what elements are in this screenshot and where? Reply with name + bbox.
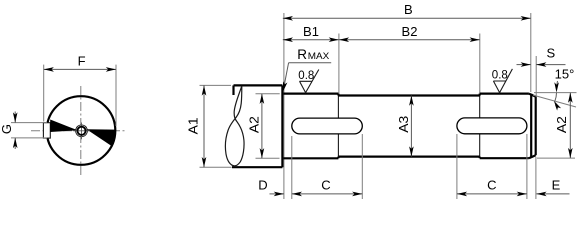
extension lines for dimension F [44,65,116,126]
svg-text:S: S [546,46,555,61]
dimension line G lower [14,138,16,149]
svg-text:0.8: 0.8 [492,70,508,82]
extension line bottom for A2 right [537,157,575,159]
arrow A1 bottom [202,157,207,167]
dimension line A3 [410,96,412,157]
centerline horizontal (end view) [31,130,125,132]
arrow A2-right bottom [568,148,573,158]
step face edge at B2 right boundary [479,96,481,157]
arrow S right [536,62,546,67]
arrow B1 right [329,37,339,42]
arrow G bottom [13,138,18,148]
svg-text:0.8: 0.8 [298,70,314,82]
extension line right keyway end [526,134,528,199]
dimension line B1 [283,39,339,41]
dimension line F [44,68,116,70]
dimension line E [536,193,569,195]
extension line left keyway end [361,134,363,199]
extension lines for dimension A2 left [256,94,280,159]
svg-text:A2: A2 [246,116,261,133]
dimension line A2 left [261,94,263,159]
step face edge at B1/B2 boundary [337,96,339,157]
extension line at end face (for S) [535,56,537,96]
leader shelf line for R MAX [289,62,332,64]
dimension line D [270,193,284,195]
extension line at chamfer start (for B, S) [530,13,532,92]
arrow B1 left [283,37,293,42]
extension line right keyway start [456,134,458,199]
arrow F left [44,67,54,72]
shaft outline circle [47,96,116,165]
dimension line A1 [203,85,205,167]
svg-text:D: D [258,178,267,193]
angular dimension lower leader [556,105,557,109]
angular dimension arc 15deg [555,93,557,101]
section wedge right (black) [87,129,116,146]
svg-text:C: C [321,178,330,193]
leader line R MAX [284,63,289,89]
centre hole crosshair [73,123,90,140]
centerline vertical (end view) [80,86,82,176]
svg-text:A1: A1 [186,117,201,134]
extension line between B1 and B2 [338,34,340,94]
dimension line S right part [536,64,565,66]
dimension line B2 [339,39,480,41]
keyway slot left (side view) [292,118,363,134]
extension line shaft end face bottom [535,157,537,199]
arrow C-left left [292,192,302,197]
extension lines for dimension G [11,123,47,138]
chamfer angle reference line horizontal [534,92,577,94]
arrow E [536,192,546,197]
arrow A1 top [202,85,207,95]
svg-text:MAX: MAX [308,51,330,62]
arrow S left [521,62,531,67]
extension line left keyway start [291,136,293,199]
dimension line C right [457,193,527,195]
arrow 15deg upper [554,82,559,92]
svg-text:F: F [78,53,86,68]
dimension line A2 right [569,93,571,159]
chamfer angle extension line diagonal [533,95,576,107]
keyway slot (end view) [43,123,50,138]
svg-text:A3: A3 [396,116,411,133]
special break line (lasso) [225,86,244,166]
arrow C-right left [457,192,467,197]
dimension line S left part [517,64,531,66]
svg-text:15°: 15° [555,66,575,81]
keyway slot right (side view) [457,118,527,134]
svg-text:B2: B2 [402,24,418,39]
shaft profile outline [284,94,536,159]
arrow A2-left top [260,94,265,104]
svg-text:G: G [0,124,14,134]
svg-text:B1: B1 [303,24,319,39]
dimension line B [283,17,531,19]
arrow D [274,192,284,197]
section wedge left (black) [50,120,77,133]
arrow C-right right [517,192,527,197]
arrow B2 left [339,37,349,42]
phantom break continuation lines (hub left) [200,85,232,167]
arrow B2 right [470,37,480,42]
hub body outline (diameter A1) [232,85,282,167]
arrow A3 bottom [409,146,414,156]
centre tapped hole thread circle [76,125,88,137]
extension line at B2 right step [479,34,481,94]
angular dimension upper leader [556,81,559,86]
arrow R MAX leader [283,81,288,92]
arrow A2-left bottom [260,148,265,158]
centre hole inner circle [77,127,85,135]
arrow A2-right top [568,93,573,103]
svg-text:C: C [487,178,496,193]
arrow F right [106,67,116,72]
svg-text:B: B [404,2,413,17]
dimension line G upper [14,112,16,123]
arrow B right [521,16,531,21]
arrow 15deg lower [554,101,561,111]
dimension line C left [292,193,363,195]
svg-text:R: R [297,47,307,62]
svg-text:E: E [552,178,561,193]
extension line at shoulder (for B, B1, D) [283,13,285,199]
arrow G top [13,112,18,122]
svg-text:A2: A2 [554,116,569,133]
chamfer circle edge at shaft end [530,94,532,158]
arrow A3 top [409,96,414,106]
arrow B left [283,16,293,21]
arrow C-left right [352,192,362,197]
surface roughness symbol right [493,69,512,93]
surface roughness symbol left [300,70,319,93]
